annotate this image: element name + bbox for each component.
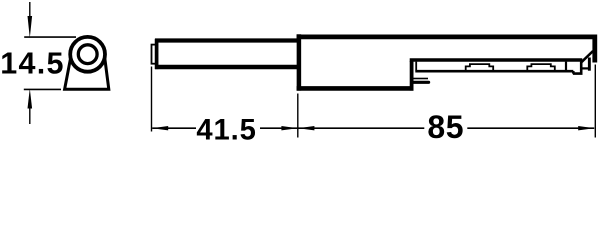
dim arrow 85 right bbox=[578, 126, 594, 130]
mounting foot bar bbox=[414, 81, 429, 84]
clip profile 2 bbox=[527, 64, 555, 71]
latch plunger rod left edge bbox=[155, 39, 159, 69]
dim line 41.5 right segment bbox=[260, 127, 297, 129]
cell divider thick bbox=[580, 62, 583, 74]
inner chamfer at right end bbox=[581, 51, 593, 62]
svg-text:41.5: 41.5 bbox=[196, 115, 256, 146]
housing body right step edge bbox=[410, 61, 414, 91]
dimension 14.5 bottom extension line bbox=[24, 88, 61, 90]
channel bottom line bbox=[415, 70, 573, 73]
right end hook bar bbox=[588, 58, 591, 71]
keeper trapezoid base bbox=[65, 58, 109, 90]
dim line 41.5 left segment bbox=[152, 127, 196, 129]
channel bottom step-down segment bbox=[573, 71, 583, 74]
latch plunger end cap bbox=[152, 45, 157, 64]
dimension 14.5 top extension line bbox=[24, 36, 76, 38]
extension line left (41.5) bbox=[151, 67, 153, 132]
dimension 14.5 top leader shaft bbox=[29, 2, 31, 17]
svg-text:14.5: 14.5 bbox=[0, 47, 65, 81]
dimension 14.5 bottom leader shaft bbox=[29, 108, 31, 125]
extension line middle bbox=[297, 94, 299, 138]
housing top line with right corner edge bbox=[297, 37, 595, 63]
channel top plate line bbox=[410, 58, 583, 61]
keeper inner ring bbox=[78, 45, 97, 64]
dimension 14.5 bottom arrow (points up) bbox=[28, 89, 33, 109]
cell divider thin bbox=[565, 62, 567, 71]
channel left inner vertical bbox=[415, 62, 417, 71]
svg-text:85: 85 bbox=[427, 109, 464, 145]
clip profile 1 bbox=[466, 64, 494, 71]
dim line 85 right segment bbox=[467, 127, 594, 129]
extension line right (85) bbox=[594, 65, 596, 138]
pocket bottom edge bbox=[581, 67, 590, 69]
dim arrow 85 left bbox=[298, 126, 314, 130]
latch plunger rod top line bbox=[155, 38, 298, 42]
keeper dome outer circle bbox=[70, 37, 105, 72]
dimension 14.5 top arrow (points down) bbox=[28, 16, 33, 38]
mounting foot thin line bbox=[414, 78, 429, 80]
housing body bottom edge bbox=[297, 86, 414, 91]
latch plunger rod bottom line bbox=[155, 65, 298, 69]
dim arrow 41.5 left bbox=[152, 126, 168, 130]
dim line 85 left segment bbox=[298, 127, 424, 129]
dim arrow 41.5 right bbox=[281, 126, 297, 130]
housing body left edge bbox=[297, 34, 302, 90]
